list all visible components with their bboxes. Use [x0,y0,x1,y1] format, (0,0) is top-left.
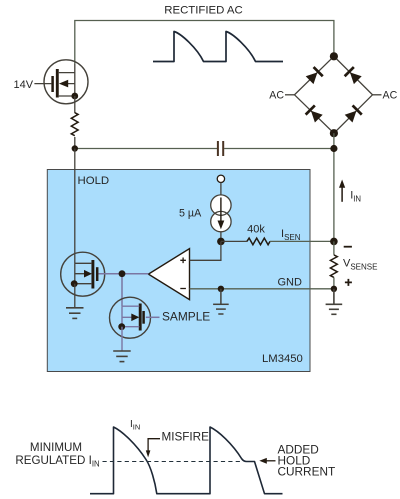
arrow IIN [339,180,345,202]
wire Vsense to GND node [333,277,335,288]
svg-text:MISFIRE: MISFIRE [162,431,210,444]
label minus terminal [344,246,352,248]
svg-text:IIN: IIN [350,189,361,203]
wire top bus [75,21,334,65]
node right rail / cap [330,145,337,152]
wire capacitor rail [75,148,334,150]
diode D1 (top-left arm) [305,67,323,85]
wire Q1 source to resistor [74,96,76,113]
waveform input current pulses [90,427,283,494]
svg-text:REGULATED IIN: REGULATED IIN [15,454,99,469]
ground right [326,289,343,315]
dashed minimum regulated line [103,461,243,463]
label plus terminal [345,279,352,286]
ground below Q2 [66,308,84,319]
wire AC left lead [285,94,295,96]
node left rail / cap [72,145,78,151]
node op-amp output [119,270,126,277]
wire ISEN [270,240,334,242]
wire SAMPLE gate lead [146,316,160,318]
LM3450 IC block (blue box) [47,170,310,372]
transistor Q2 (HOLD FET) [61,252,105,296]
svg-text:VSENSE: VSENSE [343,258,377,272]
transistor Q3 (SAMPLE FET) [110,297,151,338]
wire left rail into box [74,149,76,264]
svg-text:GND: GND [278,277,303,289]
svg-text:AC: AC [269,90,284,102]
bridge rectifier wires [295,56,373,133]
wire to Vsense resistor [333,241,335,255]
svg-text:HOLD: HOLD [78,175,110,187]
node GND right [331,286,337,292]
svg-text:RECTIFIED AC: RECTIFIED AC [164,5,242,17]
ground below Q3 [113,351,131,362]
transistor Q1 (14V FET) [34,60,88,104]
svg-text:CURRENT: CURRENT [278,465,336,479]
node bridge top [330,52,338,60]
svg-text:40k: 40k [247,223,265,235]
node minus input [218,286,224,292]
wire Q3 to ground [121,327,123,351]
svg-text:MINIMUM: MINIMUM [30,441,82,454]
arrow ADDED HOLD CURRENT [263,460,276,462]
wire Q2 to ground [74,284,76,308]
waveform rectified AC [153,32,283,62]
resistor R1 [71,113,78,136]
capacitor C1 [218,141,223,156]
svg-text:SAMPLE: SAMPLE [162,309,210,323]
svg-text:AC: AC [383,90,398,102]
wire right rail [333,133,335,241]
svg-text:LM3450: LM3450 [262,353,303,365]
diode D3 (bottom-left arm) [306,105,324,123]
arrow MISFIRE [148,439,160,451]
op-amp U1 [148,249,189,300]
svg-text:5 µA: 5 µA [179,207,202,219]
wire op-amp output (purple) [99,274,149,307]
node bridge bottom [330,129,338,137]
svg-text:IIN: IIN [130,419,140,432]
svg-text:14V: 14V [14,79,34,91]
wire op-amp - input / GND [190,288,334,290]
wire op-amp + input [190,241,221,260]
current source I1 (5uA) [211,175,231,241]
ground below minus input [213,289,229,314]
node ISEN / minus terminal [330,238,338,246]
diode D4 (bottom-right arm) [344,105,362,123]
wire to 40k [221,240,247,242]
diode D2 (top-right arm) [345,67,363,85]
resistor 40k [247,238,270,245]
node 40k junction [217,238,225,246]
resistor VSENSE [330,255,337,277]
wire resistor to node [74,137,76,149]
wire AC right lead [373,94,382,96]
